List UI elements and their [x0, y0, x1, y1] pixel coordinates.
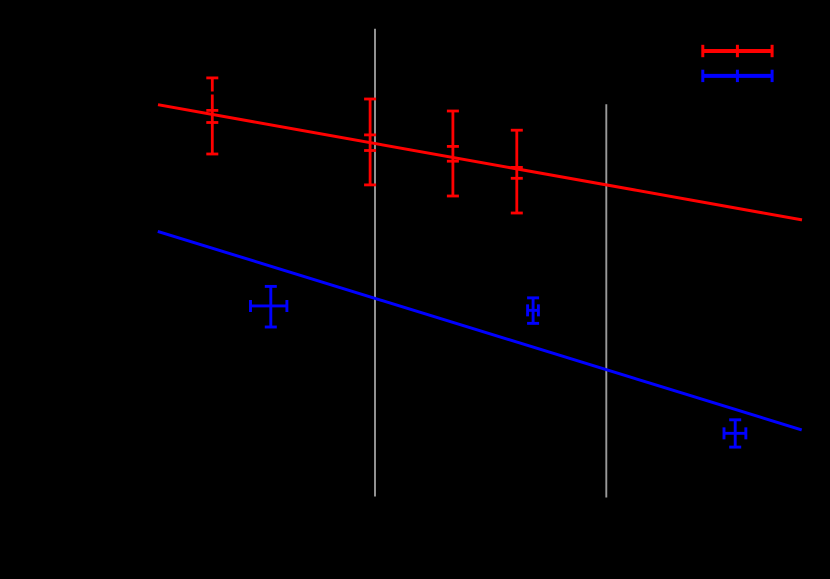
gray vertical guide line 1 — [374, 29, 376, 497]
legend blue sample — [703, 70, 772, 82]
blue fit line — [158, 231, 802, 430]
blue xy error cross 1 — [250, 286, 288, 327]
gray vertical guide line 2 — [605, 104, 607, 497]
red error bar point 4 — [511, 130, 523, 213]
red error bar point 2 — [364, 99, 376, 185]
blue xy error cross 2 — [527, 298, 539, 324]
red error bar point 1 — [206, 78, 218, 154]
blue xy error cross 3 — [724, 420, 746, 447]
legend red sample — [703, 45, 772, 57]
red error bar point 3 — [447, 111, 459, 196]
red fit line — [158, 105, 802, 220]
